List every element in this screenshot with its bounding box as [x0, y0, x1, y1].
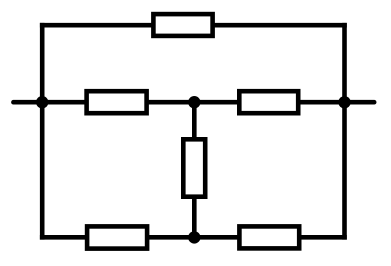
wire: outer loop top segment [42, 23, 344, 28]
resistor R3 (middle right) [239, 91, 298, 113]
wire: outer loop left segment [40, 25, 45, 237]
node D (bottom center junction dot) [188, 231, 200, 243]
resistor R4 (center vertical) [183, 139, 205, 196]
resistor R2 (middle left) [87, 91, 147, 113]
wire: outer loop right segment [342, 25, 347, 237]
wire: center vertical branch [192, 102, 197, 237]
node C (right junction dot) [338, 96, 350, 108]
wire: middle horizontal rail with external stubs [13, 100, 374, 105]
node A (left junction dot) [36, 96, 48, 108]
resistor R1 (top) [153, 14, 212, 36]
wire: outer loop bottom segment [42, 235, 344, 240]
resistor R6 (bottom right) [239, 226, 299, 248]
node B (center junction dot) [188, 96, 200, 108]
resistor R5 (bottom left) [87, 226, 147, 248]
